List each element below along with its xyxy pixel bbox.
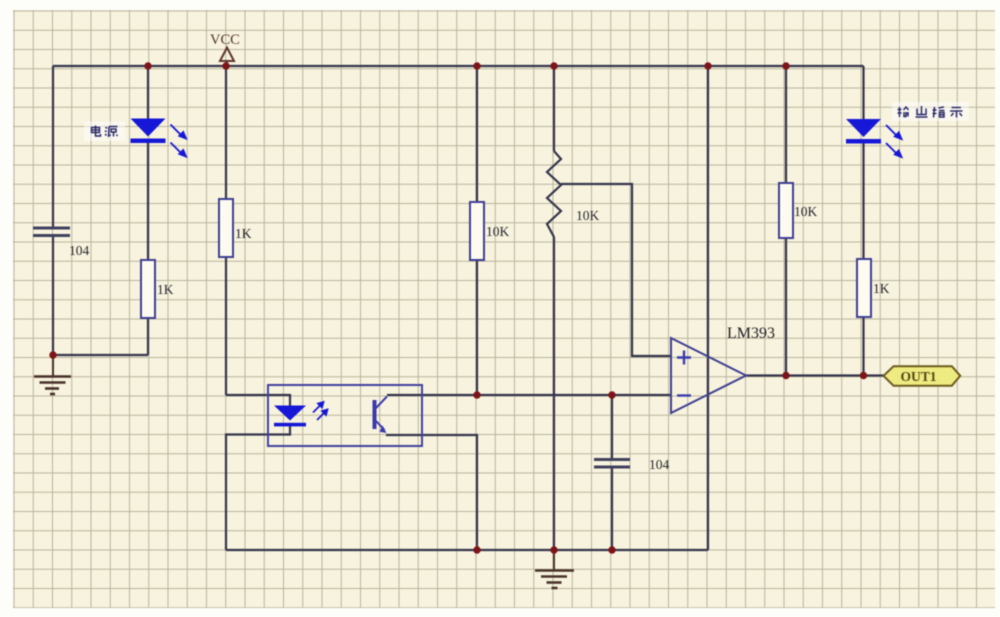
LED D2 output indicator [846,119,902,157]
node R4 top [782,62,789,69]
wire R1 top lead [225,66,227,199]
ground left [34,357,71,394]
svg-text:104: 104 [649,457,670,472]
LED D1 power indicator [131,119,187,157]
wire R3 bottom lead [476,260,478,395]
wire RP wiper to comparator plus [561,184,671,356]
optocoupler phototransistor [373,397,388,434]
node bottom rail gnd [550,546,557,553]
wire R3 top lead [476,66,478,202]
capacitor C2 104 plates [594,460,630,468]
op-amp U1 LM393 [671,338,746,413]
wire C1 bottom lead [52,236,54,355]
wire R2 bottom lead [147,318,149,355]
wire D1 anode lead [147,66,149,119]
svg-text:VCC: VCC [210,32,240,48]
wire opto collector to comparator [387,394,671,396]
wire R5 bottom lead [862,317,864,376]
svg-text:10K: 10K [576,208,600,223]
wire opto LED anode [226,395,290,406]
resistor R2 1K body [141,260,155,318]
svg-text:10K: 10K [794,204,818,219]
resistor R3 10K body [470,202,484,260]
wire R4 bottom lead [785,238,787,376]
resistor R5 1K body [857,259,871,317]
wire RP top lead [553,66,555,151]
node C2 top [608,391,615,398]
node minus input left [473,391,480,398]
wire U1 output to port [746,374,884,376]
node ground left [49,351,56,358]
capacitor C1 104 plates [33,228,70,236]
wire R4 top lead [785,66,787,183]
VCC power symbol [210,32,240,63]
label dianyuan (power) [84,122,125,142]
wire RP bottom lead [553,237,555,550]
node output R4 [782,372,789,379]
wire D2 cathode to R5 [862,143,864,259]
node R3 top [473,62,480,69]
node VCC [222,62,229,69]
node U1 V+ [704,62,711,69]
svg-text:10K: 10K [486,224,510,239]
wire C1 top lead [52,66,54,228]
node bottom rail 1 [473,546,480,553]
node RP top [550,62,557,69]
port OUT1 [884,366,961,386]
wire D2 anode lead [862,66,864,119]
potentiometer RP 10K zigzag [547,151,561,237]
resistor R1 1K body [219,199,233,257]
svg-text:1K: 1K [157,282,174,297]
label shuchuzhishi (output indicator) [892,102,969,121]
wire U1 supply column [707,66,709,550]
wire R1 bottom to opto anode [225,257,227,395]
wire top rail [53,65,864,67]
wire ground run to R2 [53,354,148,356]
optocoupler LED [274,402,328,426]
svg-text:OUT1: OUT1 [901,369,937,384]
node D1 top [144,62,151,69]
node output R5 [860,372,867,379]
resistor R4 10K body [779,183,793,238]
wire C2 bottom lead [611,468,613,550]
svg-text:LM393: LM393 [727,325,775,342]
svg-text:104: 104 [69,243,90,258]
optocoupler U2 box [268,385,422,446]
svg-text:1K: 1K [873,281,890,296]
svg-text:1K: 1K [235,226,252,241]
wire opto LED cathode [226,426,290,550]
wire C2 top lead [611,395,613,459]
wire bottom rail [226,549,708,551]
ground bottom [535,550,574,588]
wire opto emitter to bottom rail [386,435,477,550]
wire D1 cathode to R2 [147,143,149,260]
node C2 bottom [608,546,615,553]
